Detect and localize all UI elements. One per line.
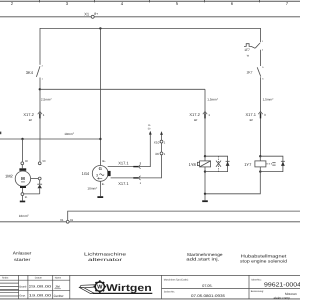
wire 3K4 to starter terminal 50 xyxy=(39,78,41,162)
connector X17.1 pin 1 inline xyxy=(133,176,140,180)
wire rail 8+ top xyxy=(0,16,300,18)
connector X1 pin 31 xyxy=(66,220,69,223)
switch contact 3K4 blade xyxy=(36,66,40,77)
connector X6 pin 1 xyxy=(160,152,163,155)
svg-text:Jan: Jan xyxy=(55,285,60,289)
svg-text:starter: starter xyxy=(14,257,31,262)
alternator 1G4 body xyxy=(92,166,110,199)
wire to chassis xyxy=(204,194,206,201)
svg-text:Bearb: Bearb xyxy=(19,285,26,288)
svg-text:07.05.0801-0935: 07.05.0801-0935 xyxy=(191,294,225,298)
svg-text:29.08.00: 29.08.00 xyxy=(29,285,52,289)
svg-text:Maschinen Typ (Code):: Maschinen Typ (Code): xyxy=(164,279,189,282)
solenoid valve 1Y8 with suppressor and diode xyxy=(197,155,229,173)
junction battery rail / alternator xyxy=(99,138,101,140)
svg-text:8+: 8+ xyxy=(94,12,98,16)
connector X17.1 pin 3 right xyxy=(258,111,262,118)
svg-text:Benennung:: Benennung: xyxy=(251,290,264,293)
svg-text:alternator: alternator xyxy=(88,257,123,262)
node battery feed entry xyxy=(0,132,1,135)
svg-text:BP: BP xyxy=(29,119,33,122)
svg-text:Lichtmaschine: Lichtmaschine xyxy=(84,251,127,256)
connector X10 pin 1 xyxy=(160,140,163,143)
arrow off-page W xyxy=(160,131,163,135)
svg-text:Gepr.: Gepr. xyxy=(19,294,26,297)
svg-text:W: W xyxy=(97,285,103,291)
svg-text:Änder.: Änder. xyxy=(2,277,9,280)
wire cross rail to solenoid column xyxy=(40,88,205,90)
svg-text:Gunther: Gunther xyxy=(54,294,65,298)
connector X17.2 pin 1 mid xyxy=(203,111,207,118)
wire diode to terminal 31 node xyxy=(24,193,40,195)
wire bus from 3K4 to 1F7 xyxy=(40,28,261,64)
wire alternator D+ to arrow xyxy=(108,134,151,166)
svg-text:add.start inj.: add.start inj. xyxy=(186,257,219,262)
svg-text:X17.2: X17.2 xyxy=(23,112,34,117)
connector X17.2 pin 1 left xyxy=(38,111,42,118)
circuit breaker 1F7 xyxy=(244,43,260,48)
Wirtgen logo xyxy=(80,280,153,294)
wire 1F7 to 2K7 xyxy=(260,50,262,66)
svg-text:BP: BP xyxy=(194,119,198,122)
title block grid xyxy=(0,275,300,299)
diode across starter xyxy=(37,180,42,194)
svg-text:3K4: 3K4 xyxy=(26,70,34,75)
svg-text:1Y8: 1Y8 xyxy=(189,162,197,167)
svg-text:X10: X10 xyxy=(154,140,160,144)
wire frame ground upper xyxy=(68,211,300,220)
svg-text:X6: X6 xyxy=(155,152,159,156)
svg-text:Ident-No.:: Ident-No.: xyxy=(251,278,262,281)
svg-text:50: 50 xyxy=(43,160,46,163)
alternator symbol G 3~ xyxy=(96,166,104,179)
connector X1 pin 8+ xyxy=(91,15,94,18)
wire ground bus 31 xyxy=(0,221,66,223)
svg-text:X1: X1 xyxy=(84,12,90,17)
svg-text:BP: BP xyxy=(250,119,254,122)
wire down to solenoid 1Y8 xyxy=(204,89,206,156)
terminal circle 50 of starter xyxy=(38,162,41,165)
svg-text:07.05.: 07.05. xyxy=(202,284,212,288)
svg-text:elektr.comp: elektr.comp xyxy=(274,296,291,300)
svg-text:1G4: 1G4 xyxy=(82,171,90,176)
relay contact 2K7 blade xyxy=(257,67,261,76)
svg-text:3: 3 xyxy=(96,174,98,178)
svg-text:2K7: 2K7 xyxy=(247,71,253,75)
solenoid valve 1Y7 with diode xyxy=(255,155,285,173)
svg-text:1Y7: 1Y7 xyxy=(244,162,252,167)
svg-text:Wirtgen: Wirtgen xyxy=(106,283,152,294)
wire 2K7 down to solenoid 1Y7 xyxy=(260,77,262,156)
svg-text:M: M xyxy=(21,176,25,181)
starter motor 1M2 body xyxy=(15,139,30,202)
wire solenoid ground return xyxy=(205,172,260,194)
svg-text:99621-0004: 99621-0004 xyxy=(264,282,300,289)
svg-text:Datum: Datum xyxy=(35,277,42,280)
svg-text:1M2: 1M2 xyxy=(5,174,14,179)
wire alternator W to arrow xyxy=(111,135,162,178)
junction node at wire to X17.2 xyxy=(39,88,41,90)
svg-text:1F7: 1F7 xyxy=(244,48,250,52)
svg-text:Serien-Nr.:: Serien-Nr.: xyxy=(164,290,176,293)
wire battery rail 10mm2 xyxy=(0,138,100,140)
svg-text:X17.1: X17.1 xyxy=(118,181,129,186)
connector X17.1 pin 2 inline xyxy=(133,165,140,169)
svg-text:X17.2: X17.2 xyxy=(189,112,200,117)
title block captions xyxy=(2,277,264,294)
svg-text:19.08.00: 19.08.00 xyxy=(29,294,52,298)
svg-text:B+: B+ xyxy=(102,160,106,163)
svg-text:X17.1: X17.1 xyxy=(118,160,129,165)
svg-text:stop engine solenoid: stop engine solenoid xyxy=(240,259,288,264)
svg-text:X1: X1 xyxy=(60,218,64,222)
svg-text:X17.1: X17.1 xyxy=(246,112,257,117)
arrow off-page D+ xyxy=(149,131,152,135)
junction solenoid ground node xyxy=(204,193,206,195)
svg-text:G: G xyxy=(99,166,102,171)
legend captions xyxy=(13,251,288,264)
svg-text:Anlasser: Anlasser xyxy=(13,251,32,256)
svg-text:31: 31 xyxy=(70,218,74,222)
svg-text:Name: Name xyxy=(55,277,62,280)
wire motor terminal to diode xyxy=(31,178,39,180)
terminal circle at diode xyxy=(38,177,41,180)
junction bus/alternator branch xyxy=(99,27,101,29)
svg-text:B-: B- xyxy=(102,183,105,186)
ground chassis solenoids xyxy=(202,200,208,202)
junction battery rail / starter xyxy=(21,138,23,140)
svg-text:30: 30 xyxy=(25,160,28,163)
wire bus to alternator B+ xyxy=(99,28,101,165)
